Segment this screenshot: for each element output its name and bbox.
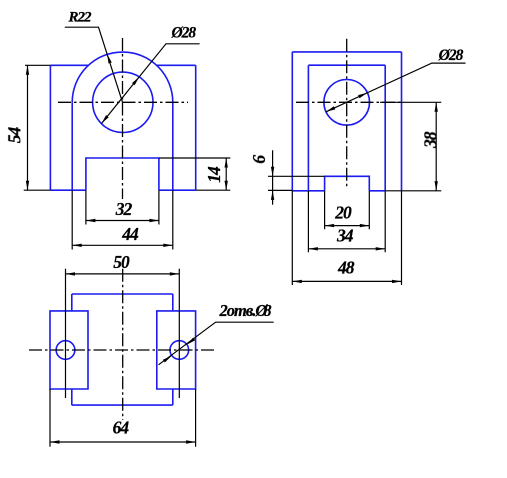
svg-text:6: 6 xyxy=(249,155,269,164)
svg-text:44: 44 xyxy=(121,224,139,244)
dimension 50 line xyxy=(66,273,180,275)
svg-text:14: 14 xyxy=(204,166,224,183)
front view horizontal centerline xyxy=(58,101,188,103)
front view bottom notch xyxy=(86,158,159,190)
plan view vertical centerline xyxy=(122,269,124,420)
dimension 64 line xyxy=(50,441,196,443)
side hole diameter leader xyxy=(326,63,466,112)
front view lug arc R22 xyxy=(72,52,173,102)
svg-text:54: 54 xyxy=(4,127,24,144)
plan view hole centerlines (also 50-dim extensions) xyxy=(66,269,180,398)
plan view right flange xyxy=(157,311,196,389)
radius leader R22 xyxy=(65,27,123,102)
front hole diameter leader xyxy=(101,44,199,124)
svg-text:2отв.Ø8: 2отв.Ø8 xyxy=(219,301,272,320)
side view bottom notch xyxy=(325,176,370,191)
holes leader 2otv xyxy=(159,322,274,365)
svg-text:R22: R22 xyxy=(68,9,93,25)
dimension 64 extension lines xyxy=(50,389,196,447)
dimension 32 extension lines xyxy=(86,190,159,224)
dimension 34 line xyxy=(308,248,385,250)
dimension 14 line xyxy=(225,158,227,190)
plan view left hole xyxy=(56,341,75,360)
front view vertical centerline xyxy=(122,38,124,199)
svg-text:38: 38 xyxy=(420,131,440,149)
dimension 54 line xyxy=(27,65,29,190)
dimension 34 extension lines xyxy=(308,191,385,253)
side view horizontal centerline xyxy=(296,101,402,103)
side view hole circle xyxy=(324,80,370,126)
dimension 48 extension lines xyxy=(292,191,401,285)
dimension 44 extension lines xyxy=(72,190,173,249)
dimension 38 extension lines xyxy=(380,102,441,191)
svg-text:Ø28: Ø28 xyxy=(170,24,196,41)
side view vertical centerline xyxy=(346,39,348,188)
svg-text:20: 20 xyxy=(334,203,352,223)
dimension 20 line xyxy=(325,225,370,227)
dimension 54 extension lines xyxy=(24,65,51,190)
dimension 38 line xyxy=(435,102,437,191)
dimension 6 line xyxy=(272,150,274,204)
plan view horizontal centerline xyxy=(29,349,217,351)
plan view left flange xyxy=(50,311,88,389)
dimension 20 extension lines xyxy=(325,191,370,229)
svg-text:50: 50 xyxy=(113,252,130,272)
plan view right hole xyxy=(170,341,189,360)
plan view central plate outline xyxy=(72,294,173,405)
side view inner plate edges xyxy=(308,65,385,191)
dimension 6 extension lines xyxy=(268,176,325,190)
dimension 48 line xyxy=(292,280,401,282)
dimension 44 line xyxy=(72,244,173,246)
svg-text:64: 64 xyxy=(113,418,130,438)
dimension 32 line xyxy=(86,220,159,222)
svg-text:48: 48 xyxy=(337,258,355,278)
front view body outline xyxy=(50,65,195,190)
front view hole circle xyxy=(93,72,153,132)
dimension 14 extension lines xyxy=(159,158,230,190)
svg-text:Ø28: Ø28 xyxy=(438,47,464,64)
svg-text:32: 32 xyxy=(115,199,133,219)
front view lug verticals (44 wide plate edges) xyxy=(72,102,173,190)
svg-text:34: 34 xyxy=(336,226,354,246)
side view outer outline xyxy=(292,52,401,191)
